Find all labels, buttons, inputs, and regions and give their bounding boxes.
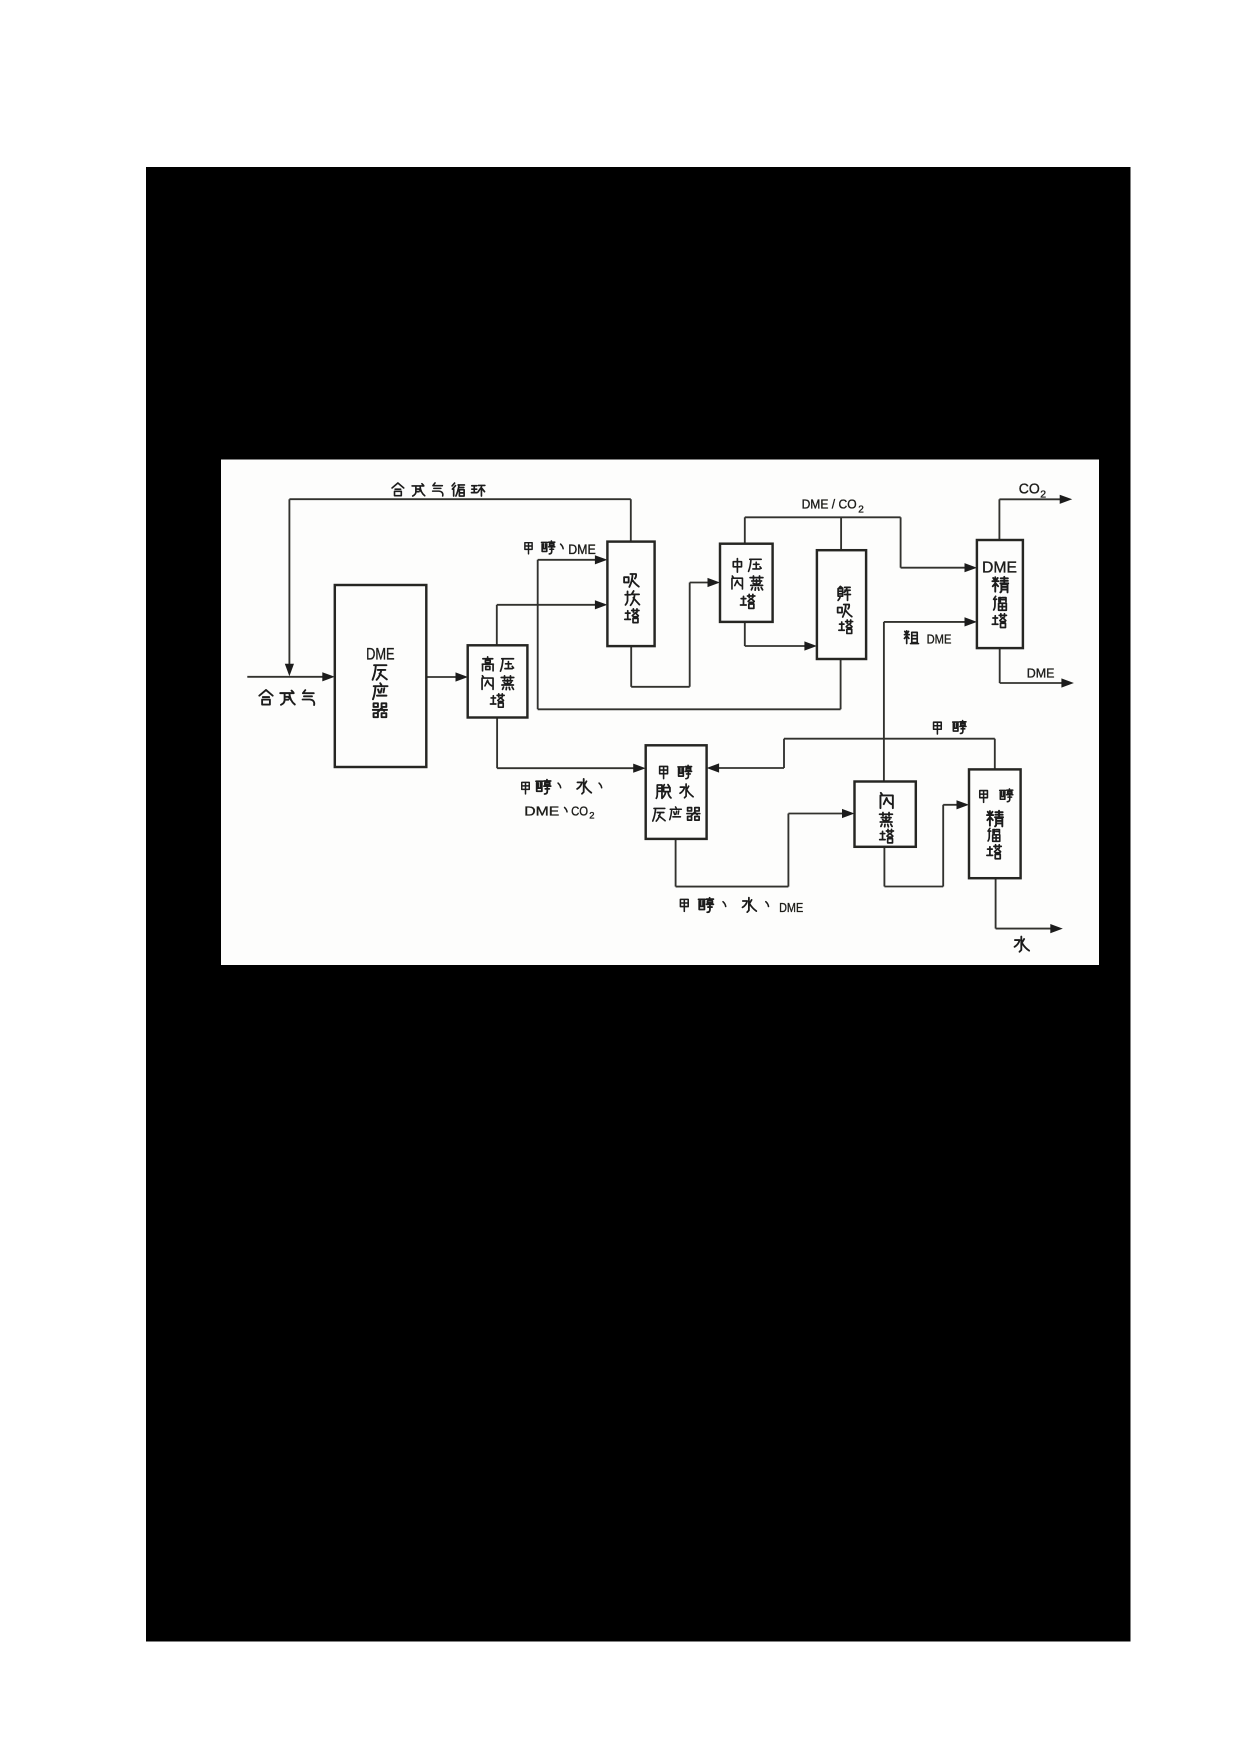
- label flash feed 甲醇、水、DME: [680, 898, 803, 915]
- arrow recycle joins feed: [285, 664, 294, 677]
- svg-text:DME: DME: [779, 900, 803, 915]
- wire methanol recycle into reactor: [719, 767, 784, 769]
- wire DME/CO2 overhead header: [745, 516, 901, 518]
- wire flash bottoms drop: [883, 847, 885, 887]
- label CO2 outlet: [1019, 482, 1047, 501]
- box methanol dehydration reactor: [646, 745, 707, 839]
- wire HP flash bottoms drop: [496, 718, 498, 769]
- label DME product: [1027, 665, 1055, 680]
- box medium-pressure flash tower: [720, 544, 773, 622]
- svg-text:DME: DME: [1027, 665, 1055, 680]
- svg-text:CO: CO: [1019, 482, 1040, 498]
- arrow DME column lower inlet: [965, 617, 978, 626]
- wire lean solvent return horizontal: [538, 708, 841, 710]
- box desorber tower: [817, 550, 866, 659]
- wire methanol recycle header: [784, 738, 995, 740]
- svg-text:DME: DME: [524, 803, 559, 818]
- svg-text:2: 2: [858, 505, 864, 516]
- wire absorber bottoms drop: [630, 646, 632, 687]
- arrow CO2 out: [1060, 495, 1073, 504]
- label methanol recycle 甲醇: [934, 721, 966, 734]
- wire MP flash top riser: [744, 517, 746, 543]
- box high-pressure flash tower: [468, 645, 528, 717]
- wire desorber bottoms drop: [840, 659, 842, 709]
- wire water horizontal: [996, 928, 1051, 930]
- box flash tower: [855, 782, 916, 847]
- wire to dehydration reactor: [497, 767, 633, 769]
- arrow DME column upper inlet: [965, 563, 978, 572]
- wire flash bottoms horizontal: [884, 886, 943, 888]
- box methanol distillation column: [969, 769, 1021, 878]
- svg-text:DME: DME: [568, 542, 596, 557]
- wire DME product drop: [999, 648, 1001, 683]
- arrow DME out: [1061, 678, 1074, 687]
- wire crude DME riser: [883, 622, 885, 782]
- wire water drop: [995, 878, 997, 928]
- arrow absorber top inlet: [595, 555, 608, 564]
- wire reactor effluent drop: [675, 839, 677, 887]
- arrow into HP flash tower: [456, 672, 469, 681]
- svg-text:DME / CO: DME / CO: [802, 497, 857, 512]
- wire syngas feed horizontal: [247, 676, 323, 678]
- label methanol/DME 甲醇、DME: [525, 541, 596, 557]
- arrow water out: [1050, 924, 1063, 933]
- wire syngas recycle top horizontal: [289, 498, 630, 500]
- wire riser to methanol column: [942, 805, 944, 887]
- wire riser to MP flash: [689, 583, 691, 687]
- box absorber tower: [607, 542, 654, 647]
- wire header drop to methanol column: [994, 739, 996, 770]
- wire CO2 offgas riser: [998, 499, 1000, 540]
- wire MP flash bottoms drop: [744, 622, 746, 646]
- wire DME product horizontal: [1000, 682, 1062, 684]
- black page backdrop: [146, 167, 1131, 1642]
- arrow into reactor right side: [707, 763, 720, 772]
- wire into methanol column: [943, 804, 957, 806]
- wire absorber bottoms horizontal: [631, 686, 690, 688]
- arrow methanol column inlet: [957, 800, 970, 809]
- wire lean solvent vertical: [537, 560, 539, 710]
- wire effluent horizontal: [676, 886, 789, 888]
- svg-text:DME: DME: [927, 632, 952, 647]
- arrow into DME reactor: [322, 672, 335, 681]
- svg-text:2: 2: [1040, 489, 1046, 501]
- arrow flash tower inlet: [842, 809, 855, 818]
- wire into flash tower: [788, 813, 842, 815]
- wire CO2 offgas horizontal: [999, 498, 1060, 500]
- wire reactor outlet: [426, 676, 456, 678]
- wire into DME column upper inlet: [901, 567, 965, 569]
- arrow MP flash inlet: [708, 578, 721, 587]
- wire methanol recycle drop: [783, 739, 785, 768]
- wire into MP flash tower: [690, 582, 708, 584]
- wire HP flash top riser: [496, 605, 498, 646]
- wire desorber top riser: [840, 517, 842, 550]
- box DME distillation column: [977, 540, 1023, 648]
- svg-text:DME: DME: [366, 646, 395, 664]
- arrow desorber inlet: [804, 641, 817, 650]
- wire syngas recycle vertical drop: [288, 499, 290, 664]
- svg-text:CO: CO: [571, 803, 588, 818]
- label DME/CO2 header: [802, 497, 865, 516]
- box DME reactor: [335, 585, 427, 767]
- wire header drop right: [900, 517, 902, 567]
- label reactor effluent line2 DME、CO2: [524, 803, 594, 821]
- label crude DME 粗DME: [904, 631, 951, 647]
- label syngas recycle 合成气循环: [392, 483, 485, 496]
- svg-text:2: 2: [589, 810, 594, 821]
- label water outlet 水: [1015, 937, 1030, 952]
- white diagram panel: [221, 460, 1099, 966]
- wire recycle down into absorber top: [630, 499, 632, 541]
- wire into desorber: [745, 645, 805, 647]
- arrow dehydration reactor inlet: [633, 764, 646, 773]
- wire crude DME horizontal: [884, 621, 965, 623]
- wire methanol/DME into absorber top inlet: [538, 559, 596, 561]
- arrow absorber mid inlet: [595, 600, 608, 609]
- wire effluent riser: [787, 814, 789, 887]
- svg-text:DME: DME: [982, 559, 1017, 576]
- label syngas feed 合成气: [259, 690, 314, 705]
- label reactor effluent line1 甲醇、水、: [522, 779, 602, 794]
- wire into absorber mid inlet: [497, 604, 596, 606]
